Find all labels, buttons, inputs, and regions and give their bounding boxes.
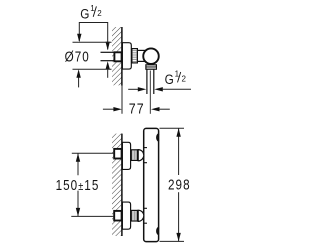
150+-15 dimension: top extension line	[72, 152, 114, 154]
dimension line with arrows	[178, 128, 180, 175]
bottom extension line	[160, 240, 185, 242]
pipe centerline / 77 extension	[149, 71, 151, 114]
body (front view)	[144, 128, 159, 241]
in-wall box inlet 2	[114, 211, 121, 221]
escutcheon inlet 2 (front view)	[122, 202, 130, 229]
outlet pipe (side view)	[146, 69, 148, 94]
extension line: wall face extended down to 77 dim	[121, 86, 123, 114]
wall face line (front view)	[121, 134, 123, 236]
svg-text:G: G	[165, 71, 174, 87]
wall (front view, hatched)	[112, 134, 122, 236]
svg-text:2: 2	[97, 9, 102, 18]
svg-text:2: 2	[182, 75, 187, 84]
wall (side view, hatched)	[112, 27, 122, 85]
dimension line with arrows	[77, 153, 79, 175]
right arrow with line	[154, 87, 163, 91]
svg-text:298: 298	[168, 176, 191, 193]
G1/2 pipe dimension (side view), left arrow	[128, 88, 138, 90]
arrow down onto O70 top ext line	[77, 34, 81, 43]
in-wall connection box (side view)	[114, 52, 121, 61]
union nut inlet 2 (front view)	[131, 210, 137, 221]
bottom extension line	[71, 215, 114, 217]
collar below knob (side view)	[146, 65, 157, 69]
union nut inlet 1 (front view)	[131, 150, 137, 161]
ball joint inlet 2	[138, 210, 144, 221]
O70 top extension line	[73, 41, 112, 43]
in-wall box inlet 1	[114, 149, 121, 159]
boss step lines inlet 1	[144, 147, 148, 149]
supply pipe (side view)	[101, 51, 115, 53]
arrow up onto pipe bottom	[106, 61, 110, 69]
ball joint inlet 1	[138, 150, 144, 161]
leader for G1/2 top	[79, 23, 107, 50]
svg-text:150±15: 150±15	[56, 177, 100, 194]
grip notch top	[157, 134, 159, 141]
svg-text:77: 77	[129, 100, 145, 116]
label G1/2 (side view right)	[165, 69, 187, 87]
boss step lines inlet 2	[144, 207, 148, 209]
union nut (side view, knurled)	[132, 49, 138, 63]
298 dimension: top extension line	[160, 127, 185, 129]
escutcheon (side view)	[122, 43, 131, 69]
escutcheon inlet 1 (front view)	[122, 142, 130, 169]
knob circle (side view)	[143, 48, 159, 64]
adapter piece (side view)	[137, 50, 146, 61]
77 dimension	[103, 108, 115, 110]
O70 bottom arrow (up)	[76, 69, 80, 78]
arrow down onto pipe top	[106, 42, 110, 51]
O70 bottom extension line	[73, 68, 112, 70]
grip notch bottom	[157, 227, 159, 234]
label G1/2 (top)	[80, 4, 102, 22]
wall face line (side view)	[121, 27, 123, 86]
svg-text:G: G	[80, 6, 89, 22]
svg-text:Ø70: Ø70	[65, 48, 90, 65]
